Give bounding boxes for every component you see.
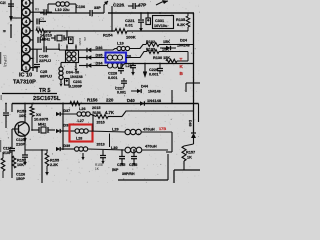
svg-text:150P: 150P xyxy=(16,177,25,181)
svg-text:L26: L26 xyxy=(79,107,86,111)
svg-text:C231: C231 xyxy=(73,80,82,84)
svg-text:3: 3 xyxy=(25,28,28,33)
svg-text:17B: 17B xyxy=(159,126,166,131)
svg-text:10K: 10K xyxy=(17,163,24,167)
svg-text:L19: L19 xyxy=(117,41,125,46)
svg-text:C331: C331 xyxy=(155,19,165,23)
svg-text:C106: C106 xyxy=(76,5,85,9)
svg-text:2: 2 xyxy=(25,47,28,52)
svg-text:L10 22u: L10 22u xyxy=(55,7,70,12)
svg-text:0.01: 0.01 xyxy=(125,23,134,28)
svg-text:220: 220 xyxy=(106,98,114,103)
svg-text:1: 1 xyxy=(25,65,28,70)
svg-text:MHz: MHz xyxy=(42,36,50,41)
svg-text:D49: D49 xyxy=(188,120,192,126)
svg-text:68PUJ: 68PUJ xyxy=(40,74,52,79)
svg-text:B.1000P: B.1000P xyxy=(69,84,83,88)
svg-text:5: 5 xyxy=(25,10,28,15)
svg-text:D24: D24 xyxy=(180,39,188,43)
svg-text:210P: 210P xyxy=(16,143,25,147)
svg-text:T: T xyxy=(180,57,183,62)
svg-text:IC 10: IC 10 xyxy=(19,73,32,79)
svg-text:C125: C125 xyxy=(16,138,26,142)
svg-text:R155: R155 xyxy=(50,159,60,163)
svg-text:6: 6 xyxy=(25,1,28,6)
svg-text:R133: R133 xyxy=(146,48,155,52)
svg-text:D34: D34 xyxy=(96,62,104,66)
svg-text:D37: D37 xyxy=(64,109,71,113)
svg-text:470uH: 470uH xyxy=(145,144,157,149)
svg-text:R8: R8 xyxy=(36,26,40,30)
svg-text:R156: R156 xyxy=(93,111,101,115)
svg-text:C226: C226 xyxy=(113,3,125,8)
svg-text:4.7K: 4.7K xyxy=(105,110,114,115)
svg-text:C220: C220 xyxy=(78,38,82,46)
svg-text:33P: 33P xyxy=(94,6,101,10)
svg-text:0.001: 0.001 xyxy=(117,90,126,94)
svg-text:1N4148: 1N4148 xyxy=(148,90,161,94)
svg-text:MHz: MHz xyxy=(38,121,46,126)
svg-text:2015: 2015 xyxy=(92,106,101,110)
svg-text:2.2K: 2.2K xyxy=(50,163,58,167)
svg-text:8.2K: 8.2K xyxy=(177,23,185,27)
svg-text:R156: R156 xyxy=(87,98,98,103)
svg-text:L30: L30 xyxy=(111,146,118,150)
svg-text:1N4148: 1N4148 xyxy=(147,98,162,103)
svg-text:15K: 15K xyxy=(162,48,169,52)
svg-text:D34~36: D34~36 xyxy=(66,70,79,74)
svg-text:R135: R135 xyxy=(176,18,186,22)
svg-text:210P: 210P xyxy=(3,151,12,155)
svg-text:D35: D35 xyxy=(96,54,104,58)
svg-text:(10P4J): (10P4J) xyxy=(3,55,7,67)
svg-text:0.001: 0.001 xyxy=(108,76,118,80)
svg-text:22PUJ: 22PUJ xyxy=(39,58,51,63)
svg-text:100K: 100K xyxy=(126,35,136,40)
svg-text:15K: 15K xyxy=(163,40,170,44)
svg-text:C126: C126 xyxy=(16,173,25,177)
svg-text:D44: D44 xyxy=(141,85,149,89)
svg-text:D36: D36 xyxy=(96,46,103,50)
svg-text:2SC1675L: 2SC1675L xyxy=(33,96,61,102)
svg-text:47P: 47P xyxy=(138,3,146,8)
svg-text:L28: L28 xyxy=(76,137,82,141)
svg-text:L27: L27 xyxy=(78,119,84,123)
svg-text:39P/RH: 39P/RH xyxy=(122,172,135,176)
svg-text:2016: 2016 xyxy=(97,121,105,125)
svg-text:16V10u: 16V10u xyxy=(154,24,168,28)
svg-text:D39: D39 xyxy=(64,144,71,148)
svg-text:R130 15K: R130 15K xyxy=(153,56,170,60)
svg-text:470uH: 470uH xyxy=(143,127,155,132)
svg-text:56P: 56P xyxy=(112,168,119,172)
svg-text:2013: 2013 xyxy=(97,143,105,147)
svg-text:R9: R9 xyxy=(35,8,39,12)
svg-text:C2i: C2i xyxy=(0,1,6,5)
svg-text:0.001: 0.001 xyxy=(149,73,159,77)
svg-text:C229: C229 xyxy=(149,68,158,72)
svg-text:R132: R132 xyxy=(146,40,155,44)
svg-text:20: 20 xyxy=(127,54,132,59)
svg-text:D40: D40 xyxy=(127,98,135,103)
svg-text:R157: R157 xyxy=(186,151,195,155)
svg-text:R154: R154 xyxy=(103,33,113,38)
svg-text:L29: L29 xyxy=(112,128,119,132)
svg-text:10K: 10K xyxy=(19,113,26,118)
svg-text:1N4148: 1N4148 xyxy=(70,75,83,79)
svg-text:TA7310P: TA7310P xyxy=(13,80,36,86)
svg-text:4: 4 xyxy=(25,19,28,24)
svg-text:1K: 1K xyxy=(187,156,192,160)
svg-text:C9: C9 xyxy=(40,17,44,21)
